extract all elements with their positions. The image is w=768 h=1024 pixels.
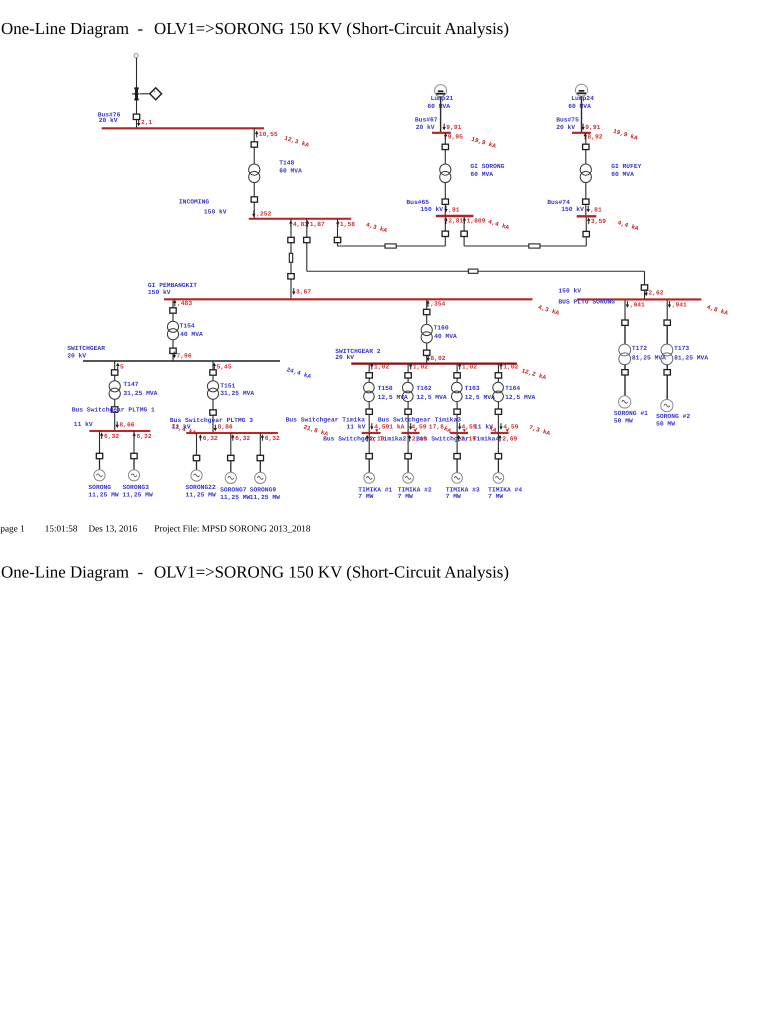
svg-text:1,58: 1,58 xyxy=(340,221,355,228)
wire timika gen4 xyxy=(497,433,499,453)
breaker CB-T163a xyxy=(454,373,460,378)
wire colC down xyxy=(337,243,339,246)
svg-text:8,66: 8,66 xyxy=(119,421,134,428)
svg-text:Bus#74: Bus#74 xyxy=(547,199,570,206)
value 1,02 t1 xyxy=(370,363,373,370)
wire xyxy=(624,365,626,370)
svg-text:2,1: 2,1 xyxy=(141,119,153,126)
wire xyxy=(497,379,499,383)
bus Timika4 xyxy=(491,432,509,434)
generator SORONG #1 xyxy=(619,396,631,408)
breaker CB-T148b xyxy=(251,197,257,202)
svg-text:T151: T151 xyxy=(220,382,235,389)
svg-text:7 MW: 7 MW xyxy=(488,493,503,500)
wire xyxy=(497,402,499,409)
svg-text:9,91: 9,91 xyxy=(585,124,600,131)
wire xyxy=(407,415,409,433)
svg-text:11,25 MW: 11,25 MW xyxy=(186,491,216,498)
breaker CB-154b xyxy=(170,348,176,353)
svg-text:Project File: MPSD SORONG 2013: Project File: MPSD SORONG 2013_2018 xyxy=(154,524,311,534)
transformer T148 xyxy=(249,164,260,183)
svg-text:4,4 kA: 4,4 kA xyxy=(487,218,510,231)
value 3,67 xyxy=(292,288,295,295)
wire colB upper xyxy=(306,219,308,237)
wire xyxy=(666,365,668,370)
wire t154 a xyxy=(172,300,174,307)
svg-text:,81: ,81 xyxy=(590,206,602,213)
transformer T151 xyxy=(207,381,218,400)
value 2,1 xyxy=(137,120,140,127)
value ,941 b xyxy=(668,301,671,308)
value ,81 bus74 xyxy=(587,206,590,213)
breaker CB-T162a xyxy=(405,373,411,378)
wire xyxy=(624,326,626,345)
svg-text:20 kV: 20 kV xyxy=(99,117,118,124)
breaker CB-147b xyxy=(112,407,118,412)
breaker CB-65L xyxy=(442,231,448,236)
wire xyxy=(196,461,198,470)
svg-text:9,95: 9,95 xyxy=(448,133,463,140)
svg-text:1,02: 1,02 xyxy=(413,364,428,371)
value 4,83 xyxy=(289,220,292,227)
transformer T172 xyxy=(619,344,631,365)
breaker CB-SG2 xyxy=(131,453,137,458)
wire xyxy=(426,356,428,364)
value 6,32 d xyxy=(231,434,234,441)
value ,81 bus65 xyxy=(444,206,447,213)
breaker CB-T148a xyxy=(251,142,257,147)
svg-text:9,91: 9,91 xyxy=(446,124,461,131)
breaker CB-T162b xyxy=(405,409,411,414)
svg-text:7 MW: 7 MW xyxy=(446,493,461,500)
svg-text:60 MVA: 60 MVA xyxy=(568,103,591,110)
wire 246 right b xyxy=(540,245,586,247)
svg-text:6,32: 6,32 xyxy=(104,433,119,440)
value 2,19 t2 xyxy=(408,435,411,442)
value ,483 xyxy=(173,300,176,307)
svg-text:10,55: 10,55 xyxy=(259,131,278,138)
svg-text:81,25 MVA: 81,25 MVA xyxy=(674,354,708,361)
svg-text:4,4 kA: 4,4 kA xyxy=(617,219,640,232)
svg-text:Bus Switchgear Timika2: Bus Switchgear Timika2 xyxy=(323,435,406,442)
wire pltu2 a xyxy=(666,300,668,320)
breaker CB-151a xyxy=(210,370,216,375)
breaker CB-T163b xyxy=(454,409,460,414)
svg-text:,81: ,81 xyxy=(448,206,460,213)
breaker CB-160b xyxy=(424,350,430,355)
wire xyxy=(114,399,116,406)
wire pltmg3 gen1 xyxy=(196,433,198,455)
bus Bus#67 xyxy=(432,132,451,134)
svg-text:6,32: 6,32 xyxy=(137,433,152,440)
value ,941 a xyxy=(626,301,629,308)
generator SORONG7 xyxy=(225,472,236,483)
breaker CB-154a xyxy=(170,308,176,313)
svg-text:OLV1=>SORONG 150 KV (Short-Cir: OLV1=>SORONG 150 KV (Short-Circuit Analy… xyxy=(154,19,509,38)
wire xyxy=(456,402,458,409)
breaker CB-P2b xyxy=(664,370,670,375)
bus BUS PLTU SORONG xyxy=(577,298,701,300)
svg-text:8,02: 8,02 xyxy=(430,355,445,362)
wire gisorong 1 xyxy=(444,133,446,144)
wire to PLTU feed xyxy=(644,271,646,284)
svg-text:T148: T148 xyxy=(279,159,294,166)
wire xyxy=(444,205,446,215)
svg-text:Lump24: Lump24 xyxy=(571,95,594,102)
svg-text:12,3 kA: 12,3 kA xyxy=(283,135,310,149)
svg-text:8,92: 8,92 xyxy=(587,133,602,140)
svg-text:11 kV: 11 kV xyxy=(74,421,93,428)
svg-text:T160: T160 xyxy=(434,325,449,332)
svg-text:,252: ,252 xyxy=(256,210,271,217)
value 2,62 xyxy=(645,289,648,296)
svg-text:4,591 kA: 4,591 kA xyxy=(374,423,404,430)
svg-text:T164: T164 xyxy=(505,385,520,392)
transformer GI RUFEY xyxy=(580,164,591,183)
transformer T154 xyxy=(167,321,178,340)
svg-text:20 kV: 20 kV xyxy=(335,354,354,361)
value 1,02 t4 xyxy=(499,363,502,370)
svg-text:20 kV: 20 kV xyxy=(556,124,575,131)
wire xyxy=(407,459,409,472)
breaker CB-TG1 xyxy=(366,454,372,459)
transformer T164 xyxy=(493,382,504,401)
svg-text:GI PEMBANGKIT: GI PEMBANGKIT xyxy=(148,282,197,289)
svg-text:T158: T158 xyxy=(378,385,393,392)
svg-text:2,19: 2,19 xyxy=(369,435,384,442)
cable C-B xyxy=(468,269,478,273)
breaker CB-T158b xyxy=(366,409,372,414)
svg-text:page 1: page 1 xyxy=(0,524,25,534)
svg-text:11,25 MW: 11,25 MW xyxy=(250,494,280,501)
cable C-C xyxy=(385,244,396,248)
wire xyxy=(666,375,668,399)
value 1,02 t2 xyxy=(409,363,412,370)
transformer T173 xyxy=(661,344,673,365)
breaker CB-GS2 xyxy=(442,199,448,204)
transformer GI SORONG xyxy=(440,164,451,183)
wire colB down xyxy=(306,243,308,271)
svg-text:12,5 MVA: 12,5 MVA xyxy=(416,394,446,401)
svg-text:2,19: 2,19 xyxy=(461,435,476,442)
svg-text:20 kV: 20 kV xyxy=(416,124,435,131)
wire xyxy=(114,376,116,381)
generator SORONG22 xyxy=(191,470,202,481)
wire lump24 xyxy=(581,96,583,133)
bus Timika2 xyxy=(402,432,420,434)
wire xyxy=(133,459,135,470)
breaker CB-B1 xyxy=(304,237,310,242)
bus Bus#76 xyxy=(102,127,264,129)
wire sw2 T162 a xyxy=(407,364,409,373)
wire xyxy=(212,399,214,409)
svg-text:Bus#65: Bus#65 xyxy=(406,199,429,206)
red mark t2 xyxy=(414,429,417,432)
svg-text:1,02: 1,02 xyxy=(374,364,389,371)
bus SWITCHGEAR xyxy=(83,360,280,362)
svg-text:2,62: 2,62 xyxy=(648,290,663,297)
svg-text:7 MW: 7 MW xyxy=(398,493,413,500)
svg-text:60 MVA: 60 MVA xyxy=(470,171,493,178)
svg-text:BUS PLTU SORONG: BUS PLTU SORONG xyxy=(558,299,615,306)
svg-text:12,2 kA: 12,2 kA xyxy=(521,367,548,381)
value ,252 xyxy=(252,210,255,217)
value 8,66 xyxy=(116,421,119,428)
value 3,59 xyxy=(587,218,590,225)
value 4,59 t3 xyxy=(458,423,461,430)
wire xyxy=(426,343,428,350)
value 2,19 t3 xyxy=(457,435,460,442)
svg-text:40 MVA: 40 MVA xyxy=(180,331,203,338)
value 1,58 xyxy=(336,220,339,227)
wire xyxy=(368,459,370,472)
wire 246 left xyxy=(338,245,386,247)
svg-text:T147: T147 xyxy=(123,381,138,388)
svg-text:SORONG7: SORONG7 xyxy=(220,487,247,494)
svg-text:SORONG9: SORONG9 xyxy=(250,487,277,494)
wire lump21 xyxy=(440,97,442,133)
wire xyxy=(456,459,458,472)
bus GI PEMBANGKIT xyxy=(164,298,533,300)
svg-text:40 MVA: 40 MVA xyxy=(434,333,457,340)
red mark t3 xyxy=(463,429,466,432)
breaker CB-SG4 xyxy=(228,455,234,460)
svg-text:-: - xyxy=(138,563,144,582)
wire xyxy=(172,340,174,348)
svg-text:60 MVA: 60 MVA xyxy=(427,103,450,110)
svg-text:7,3 kA: 7,3 kA xyxy=(528,424,551,437)
breaker CB-U xyxy=(133,114,139,119)
svg-text:19,9 kA: 19,9 kA xyxy=(470,136,497,150)
wire 246 mid xyxy=(396,245,445,247)
wire long left xyxy=(307,270,469,272)
wire xyxy=(212,416,214,433)
wire girufey 1 xyxy=(585,133,587,144)
breaker CB-GR2 xyxy=(583,199,589,204)
generator SORONG9 xyxy=(255,472,266,483)
svg-text:19,9 kA: 19,9 kA xyxy=(612,128,639,142)
svg-text:SORONG #2: SORONG #2 xyxy=(656,413,690,420)
bus Timika3 xyxy=(450,432,468,434)
svg-text:4,3 kA: 4,3 kA xyxy=(537,304,560,317)
value 9,91 bus75 xyxy=(581,124,584,131)
wire xyxy=(172,354,174,361)
svg-text:2,69: 2,69 xyxy=(502,435,517,442)
cable C-A xyxy=(289,253,292,262)
wire xyxy=(407,402,409,409)
red mark t4 xyxy=(506,429,509,432)
red mark t1 xyxy=(375,429,378,432)
value 1,02 t3 xyxy=(458,363,461,370)
breaker CB-T164a xyxy=(495,373,501,378)
svg-text:11,25 MW: 11,25 MW xyxy=(123,491,153,498)
breaker CB-A1 xyxy=(288,237,294,242)
svg-text:4,59: 4,59 xyxy=(503,423,518,430)
breaker CB-SG3 xyxy=(193,455,199,460)
wire utility mid xyxy=(136,100,138,114)
svg-text:2,19: 2,19 xyxy=(412,435,427,442)
wire xyxy=(463,237,465,246)
transformer T158 xyxy=(364,382,375,401)
wire xyxy=(497,459,499,472)
svg-text:4,3 kA: 4,3 kA xyxy=(365,221,388,234)
breaker CB-160a xyxy=(424,309,430,314)
svg-text:SWITCHGEAR: SWITCHGEAR xyxy=(67,345,105,352)
svg-text:-: - xyxy=(138,19,144,38)
generator SORONG #2 xyxy=(661,400,673,412)
bus PLTMG1 xyxy=(89,430,150,432)
value 8,02 xyxy=(427,355,430,362)
wire timika gen2 xyxy=(407,433,409,453)
wire xyxy=(585,237,587,246)
generator TIMIKA #3 xyxy=(452,473,463,484)
wire PLTU feed xyxy=(644,291,646,300)
svg-text:SORONG: SORONG xyxy=(88,484,111,491)
bus INCOMING xyxy=(249,218,352,220)
value 5 xyxy=(116,363,119,370)
value 8,86 xyxy=(214,425,217,432)
svg-text:7,96: 7,96 xyxy=(177,352,192,359)
wire xyxy=(114,413,116,431)
svg-text:2,81: 2,81 xyxy=(448,218,463,225)
breaker CB-GR1 xyxy=(583,144,589,149)
svg-text:17,8: 17,8 xyxy=(429,423,444,430)
svg-text:150 kV: 150 kV xyxy=(204,209,227,216)
wire colC upper xyxy=(337,219,339,237)
value 7,96 xyxy=(173,352,176,359)
svg-text:20 kV: 20 kV xyxy=(67,353,86,360)
svg-text:6,32: 6,32 xyxy=(203,435,218,442)
value 2,69 t4 xyxy=(498,435,501,442)
svg-text:60 MVA: 60 MVA xyxy=(611,171,634,178)
wire xyxy=(497,415,499,433)
generator TIMIKA #2 xyxy=(403,473,414,484)
svg-text:12,5 MVA: 12,5 MVA xyxy=(505,394,535,401)
svg-text:Bus#75: Bus#75 xyxy=(556,116,579,123)
footer page info xyxy=(0,524,311,534)
svg-text:7 MW: 7 MW xyxy=(358,493,373,500)
svg-text:60 MVA: 60 MVA xyxy=(279,167,302,174)
svg-text:Bus#67: Bus#67 xyxy=(415,116,438,123)
svg-text:11,25 MW: 11,25 MW xyxy=(88,491,118,498)
value 9,91 bus67 xyxy=(442,124,445,131)
wire sw2 T164 a xyxy=(497,364,499,373)
value 2,81 xyxy=(444,217,447,224)
cable C-D xyxy=(529,244,540,248)
wire utility top xyxy=(136,58,138,88)
wire xyxy=(585,205,587,215)
wire xyxy=(230,461,232,472)
wire bus76 down xyxy=(253,128,255,141)
svg-text:T163: T163 xyxy=(465,385,480,392)
breaker CB-A2 xyxy=(288,274,294,279)
breaker CB-P1b xyxy=(622,370,628,375)
svg-text:31,25 MVA: 31,25 MVA xyxy=(123,390,157,397)
svg-text:6,32: 6,32 xyxy=(265,435,280,442)
wire xyxy=(624,375,626,396)
wire timika gen3 xyxy=(456,433,458,453)
wire xyxy=(368,379,370,383)
svg-text:T162: T162 xyxy=(416,385,431,392)
svg-text:Lump21: Lump21 xyxy=(431,95,454,102)
svg-text:12,5 MVA: 12,5 MVA xyxy=(465,394,495,401)
wire bus65 tapR xyxy=(463,217,465,231)
wire sw2 T163 a xyxy=(456,364,458,373)
breaker CB-T164b xyxy=(495,409,501,414)
composite network U1 xyxy=(132,87,139,100)
wire colA lower xyxy=(290,262,292,273)
svg-text:5: 5 xyxy=(120,363,124,370)
wire timika gen1 xyxy=(368,433,370,453)
svg-text:3,59: 3,59 xyxy=(591,218,606,225)
wire long right xyxy=(478,270,645,272)
svg-text:SORONG22: SORONG22 xyxy=(186,484,216,491)
svg-text:11,25 MW: 11,25 MW xyxy=(220,494,250,501)
svg-text:50 MW: 50 MW xyxy=(614,417,633,424)
wire pltmg1 gen2 xyxy=(133,431,135,453)
breaker CB-TG2 xyxy=(405,454,411,459)
value 6,32 e xyxy=(261,434,264,441)
svg-text:,941: ,941 xyxy=(630,301,645,308)
breaker CB-SG1 xyxy=(96,453,102,458)
svg-text:11 kV: 11 kV xyxy=(347,423,366,430)
node stub xyxy=(134,54,138,58)
wire xyxy=(444,183,446,199)
svg-text:,941: ,941 xyxy=(672,301,687,308)
wire xyxy=(407,379,409,383)
wire xyxy=(253,148,255,165)
value 5,45 xyxy=(213,363,216,370)
svg-text:T154: T154 xyxy=(180,322,195,329)
wire t160 a xyxy=(426,300,428,309)
lumped load Lump21 xyxy=(435,85,447,97)
value 1,87 xyxy=(306,220,309,227)
bus Bus#74 xyxy=(577,215,597,217)
svg-text:31,25 MVA: 31,25 MVA xyxy=(220,390,254,397)
breaker CB-T158a xyxy=(366,373,372,378)
wire t151 a xyxy=(212,361,214,369)
wire xyxy=(368,402,370,409)
wire utility to bus xyxy=(136,120,138,128)
wire colA to bus xyxy=(290,279,292,299)
breaker CB-TG4 xyxy=(495,454,501,459)
bus Bus#75 xyxy=(572,132,591,134)
transformer T147 xyxy=(109,381,120,400)
wire pltu1 a xyxy=(624,300,626,320)
svg-text:150 kV: 150 kV xyxy=(420,206,443,213)
value 2,19 t1 xyxy=(366,435,369,442)
breaker CB-P2a xyxy=(664,320,670,325)
svg-text:1,87: 1,87 xyxy=(310,221,325,228)
breaker CB-PLTU xyxy=(641,285,647,290)
svg-text:SORONG3: SORONG3 xyxy=(123,484,150,491)
wire xyxy=(456,415,458,433)
svg-text:One-Line Diagram: One-Line Diagram xyxy=(1,19,129,38)
svg-text:1,809: 1,809 xyxy=(467,218,486,225)
wire xyxy=(212,376,214,381)
svg-text:T173: T173 xyxy=(674,345,689,352)
svg-text:Bus Switchgear PLTMG 1: Bus Switchgear PLTMG 1 xyxy=(72,407,155,414)
value 9,95 xyxy=(444,133,447,140)
svg-text:150 kV: 150 kV xyxy=(148,289,171,296)
wire sw2 T158 a xyxy=(368,364,370,373)
svg-text:,354: ,354 xyxy=(430,301,445,308)
value 4,591 kA xyxy=(370,423,373,430)
svg-text:24,4 kA: 24,4 kA xyxy=(286,366,313,380)
svg-text:1,02: 1,02 xyxy=(462,364,477,371)
svg-text:INCOMING: INCOMING xyxy=(179,199,209,206)
value 10,55 xyxy=(255,131,258,138)
